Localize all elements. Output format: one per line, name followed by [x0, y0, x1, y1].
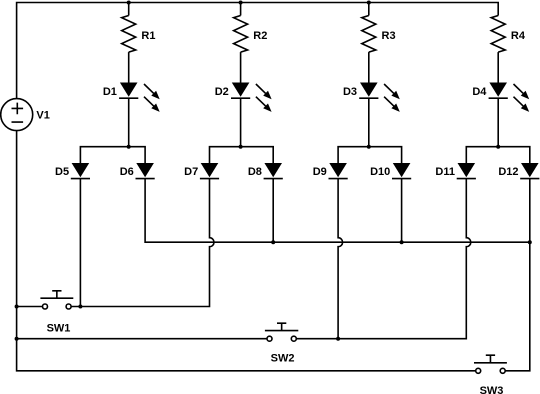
switch SW2 [265, 323, 298, 341]
svg-text:SW1: SW1 [47, 322, 71, 334]
wire: branch to D9 and D10 anodes [338, 147, 402, 163]
svg-text:R3: R3 [382, 30, 396, 42]
wire: top lead of R3 [368, 3, 370, 16]
svg-text:R1: R1 [141, 30, 155, 42]
diode D5 [71, 163, 90, 179]
label R3 [382, 30, 396, 42]
svg-text:D1: D1 [103, 86, 117, 98]
label D6 [120, 166, 134, 178]
diode D7 [200, 163, 219, 179]
junction dot: left rail / SW2 wire [15, 337, 19, 341]
junction dot: bus / D8 [271, 240, 275, 244]
label D11 [435, 166, 455, 178]
wire: D8 cathode down to bus [272, 179, 274, 243]
diode D12 [520, 163, 539, 179]
junction dot: SW1 wire / D5 column [78, 305, 82, 309]
junction dot: branch node under D1 [127, 145, 131, 149]
wire: R1 to D1 [128, 52, 130, 82]
wire: D12 cathode down through bus to SW3 right terminal [505, 179, 530, 371]
svg-text:D6: D6 [120, 166, 134, 178]
label D9 [313, 166, 327, 178]
junction dot: left rail / SW1 wire [15, 305, 19, 309]
svg-text:R4: R4 [511, 30, 526, 42]
switch SW3 [474, 355, 507, 373]
diode D6 [136, 163, 155, 179]
svg-text:D11: D11 [435, 166, 455, 178]
junction dot: SW2 wire / D9 column [336, 337, 340, 341]
svg-text:D9: D9 [313, 166, 327, 178]
wire: branch to D5 and D6 anodes [80, 147, 145, 163]
junction dot: top bus / R2 [239, 1, 243, 5]
junction dot: bus / D12 column [528, 240, 532, 244]
label D1 [103, 86, 117, 98]
wire: D4 cathode down to branch node [497, 98, 499, 147]
wire: D2 cathode down to branch node [240, 98, 242, 147]
junction dot: top bus / R1 [127, 1, 131, 5]
label D12 [498, 166, 518, 178]
svg-text:SW2: SW2 [271, 353, 295, 365]
diode D11 [457, 163, 476, 179]
wire: branch to D7 and D8 anodes [210, 147, 274, 163]
label R1 [141, 30, 155, 42]
wire: R3 to D3 [368, 52, 370, 82]
diode D10 [392, 163, 411, 179]
diode D8 [264, 163, 283, 179]
label R2 [253, 30, 267, 42]
svg-text:V1: V1 [36, 110, 49, 122]
switch SW1 [40, 291, 73, 309]
wire: R2 to D2 [240, 52, 242, 82]
label D10 [370, 166, 390, 178]
label D8 [248, 166, 262, 178]
junction dot: branch node under D4 [496, 145, 500, 149]
LED D4 [489, 83, 530, 112]
svg-text:R2: R2 [253, 30, 267, 42]
svg-text:D8: D8 [248, 166, 262, 178]
wire: top lead of R2 [240, 3, 242, 16]
label D3 [343, 86, 357, 98]
wire: bus from D6 cathode joining D8 D10 D12 cathodes [145, 179, 530, 243]
junction dot: branch node under D3 [367, 145, 371, 149]
resistor R1 [122, 16, 136, 53]
label R4 [511, 30, 526, 42]
label D5 [55, 166, 69, 178]
wire: left rail below V1 and bottom rail to SW3 [17, 131, 476, 371]
wire: D3 cathode down to branch node [368, 98, 370, 147]
label D7 [184, 166, 198, 178]
junction dot: top bus / R3 [367, 1, 371, 5]
wire: D11 cathode down, hops over bus, joins SW2 wire [296, 179, 471, 339]
wire: D7 cathode down, hops over bus, joins SW1 wire [71, 179, 214, 307]
wire: D1 cathode down to branch node [128, 98, 130, 147]
junction dot: branch node under D2 [239, 145, 243, 149]
LED D1 [119, 83, 160, 112]
svg-text:D2: D2 [215, 86, 229, 98]
LED D3 [359, 83, 400, 112]
label D4 [472, 86, 487, 98]
label V1 [36, 110, 49, 122]
label SW1 [47, 322, 71, 334]
wire: top supply bus with left rail above V1 [17, 3, 499, 99]
label SW3 [480, 385, 504, 394]
diode D9 [329, 163, 348, 179]
label SW2 [271, 353, 295, 365]
wire: left rail to SW2 [17, 338, 267, 340]
wire: top lead of R1 [128, 3, 130, 16]
wire: D5 cathode down to SW1 node [79, 179, 81, 307]
svg-text:D7: D7 [184, 166, 198, 178]
wire: branch to D11 and D12 anodes [466, 147, 530, 163]
wire: R4 to D4 [497, 52, 499, 82]
voltage source V1 [1, 99, 33, 131]
LED D2 [231, 83, 272, 112]
svg-text:D12: D12 [498, 166, 518, 178]
label D2 [215, 86, 229, 98]
svg-text:D5: D5 [55, 166, 69, 178]
svg-text:D4: D4 [472, 86, 487, 98]
wire: D10 cathode down to bus [401, 179, 403, 243]
resistor R3 [362, 16, 376, 53]
svg-text:SW3: SW3 [480, 385, 504, 394]
wire: D9 cathode down, hops over bus, to SW2 wire [338, 179, 343, 339]
svg-text:D10: D10 [370, 166, 390, 178]
resistor R4 [491, 16, 505, 53]
junction dot: bus / D10 [400, 240, 404, 244]
wire: left rail to SW1 [17, 306, 43, 308]
resistor R2 [234, 16, 248, 53]
svg-text:D3: D3 [343, 86, 357, 98]
